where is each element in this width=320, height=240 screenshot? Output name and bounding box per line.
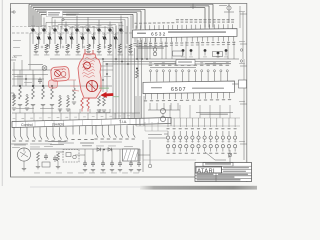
svg-text:(Switch): (Switch)	[52, 122, 64, 126]
svg-text:6532: 6532	[151, 32, 166, 38]
svg-text:6507: 6507	[171, 87, 187, 93]
svg-text:ATARI: ATARI	[197, 168, 215, 174]
svg-text:Control: Control	[21, 123, 33, 127]
svg-text:T.I.A.: T.I.A.	[119, 120, 127, 124]
